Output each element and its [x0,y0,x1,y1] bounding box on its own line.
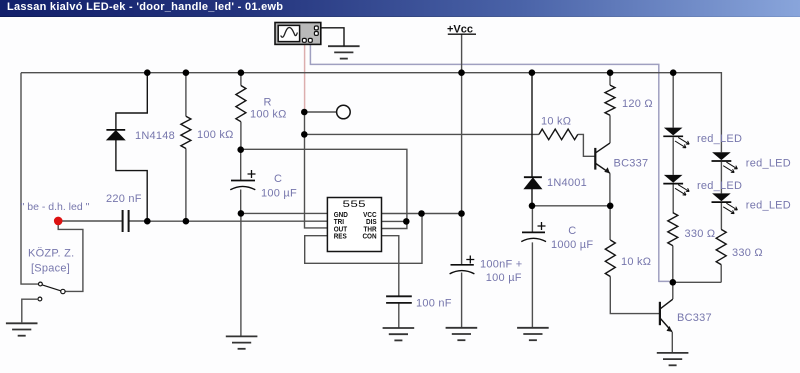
svg-text:100 µF: 100 µF [486,272,522,284]
svg-text:10 kΩ: 10 kΩ [541,116,571,128]
svg-text:100nF +: 100nF + [480,259,522,271]
svg-text:1000 µF: 1000 µF [551,239,593,251]
svg-text:+Vcc: +Vcc [447,24,473,36]
svg-text:[Space]: [Space] [31,263,70,275]
svg-text:100 kΩ: 100 kΩ [197,129,234,141]
svg-text:330 Ω: 330 Ω [685,228,716,240]
svg-text:220 nF: 220 nF [106,193,142,205]
svg-text:red_LED: red_LED [746,200,791,212]
svg-text:red_LED: red_LED [746,158,791,170]
svg-text:100 kΩ: 100 kΩ [250,109,287,121]
svg-text:C: C [568,225,576,237]
svg-text:BC337: BC337 [677,312,712,324]
svg-text:555: 555 [343,199,367,209]
svg-text:1N4001: 1N4001 [547,177,587,189]
svg-text:RES: RES [334,233,347,241]
svg-text:R: R [264,97,272,109]
svg-text:10 kΩ: 10 kΩ [621,256,651,268]
svg-text:100 nF: 100 nF [416,298,452,310]
svg-text:BC337: BC337 [614,158,649,170]
svg-text:red_LED: red_LED [697,133,742,145]
svg-text:red_LED: red_LED [697,180,742,192]
svg-text:330 Ω: 330 Ω [732,247,763,259]
svg-text:1N4148: 1N4148 [135,130,175,142]
svg-text:120 Ω: 120 Ω [622,98,653,110]
svg-text:CON: CON [362,233,376,241]
svg-text:" be - d.h. led ": " be - d.h. led " [21,201,90,213]
svg-text:C: C [274,173,282,185]
svg-text:KÖZP. Z.: KÖZP. Z. [28,248,74,260]
svg-text:100 µF: 100 µF [261,188,297,200]
